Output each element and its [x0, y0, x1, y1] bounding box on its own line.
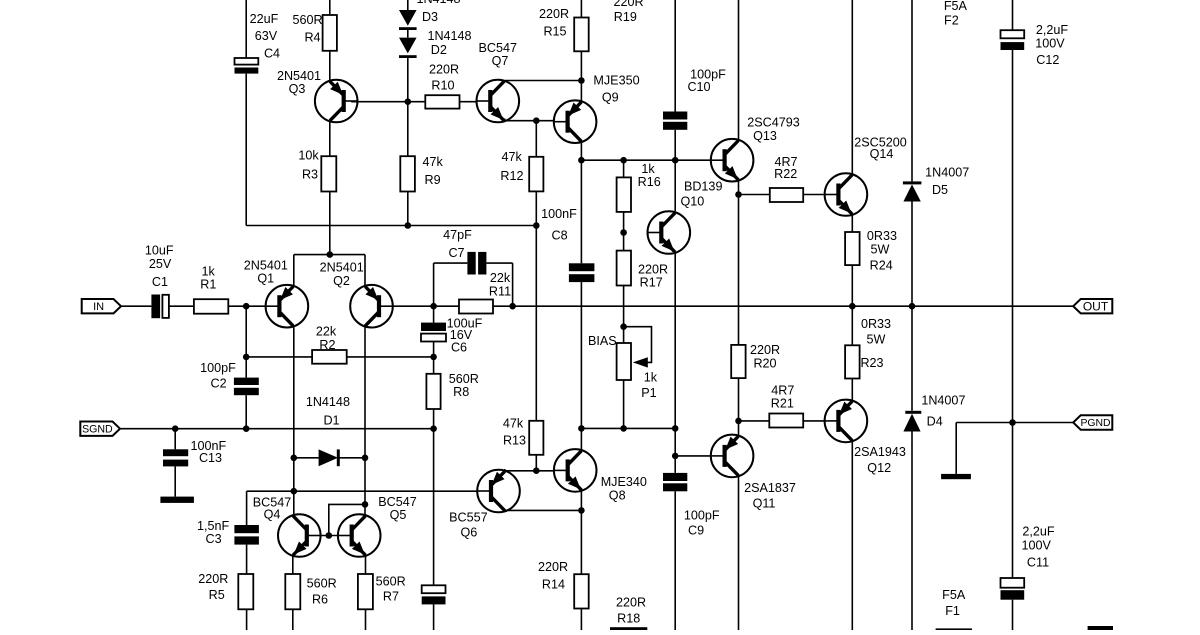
svg-text:R9: R9: [425, 173, 441, 187]
svg-text:Q4: Q4: [264, 508, 281, 522]
svg-text:R7: R7: [383, 590, 399, 604]
svg-text:R12: R12: [500, 169, 523, 183]
svg-text:560R: 560R: [292, 13, 322, 27]
svg-text:BIAS: BIAS: [588, 334, 617, 348]
svg-text:1k: 1k: [641, 162, 655, 176]
svg-text:47k: 47k: [502, 150, 523, 164]
svg-text:1k: 1k: [644, 371, 658, 385]
svg-text:F2: F2: [944, 14, 959, 28]
svg-text:BD139: BD139: [684, 180, 723, 194]
svg-text:22k: 22k: [316, 325, 337, 339]
svg-text:R22: R22: [774, 167, 797, 181]
svg-text:47pF: 47pF: [443, 228, 472, 242]
svg-text:P1: P1: [641, 386, 656, 400]
svg-text:R4: R4: [304, 31, 320, 45]
svg-text:R16: R16: [638, 175, 661, 189]
svg-text:R19: R19: [614, 10, 637, 24]
svg-text:R3: R3: [302, 168, 318, 182]
svg-text:C11: C11: [1027, 555, 1049, 569]
svg-text:560R: 560R: [376, 575, 406, 589]
svg-text:R15: R15: [543, 25, 566, 39]
svg-text:F5A: F5A: [944, 0, 968, 13]
svg-text:Q3: Q3: [289, 82, 306, 96]
svg-text:MJE340: MJE340: [601, 475, 647, 489]
svg-text:47k: 47k: [423, 155, 444, 169]
svg-text:Q9: Q9: [602, 91, 619, 105]
svg-text:220R: 220R: [613, 0, 643, 9]
svg-text:1N4148: 1N4148: [416, 0, 460, 6]
svg-text:560R: 560R: [449, 372, 479, 386]
svg-text:C4: C4: [264, 47, 280, 61]
svg-text:1,5nF: 1,5nF: [197, 519, 230, 533]
svg-text:BC547: BC547: [378, 495, 417, 509]
svg-text:R1: R1: [200, 278, 216, 292]
svg-text:5W: 5W: [867, 333, 886, 347]
svg-text:Q1: Q1: [257, 271, 274, 285]
svg-text:C10: C10: [687, 80, 710, 94]
svg-text:0R33: 0R33: [867, 229, 897, 243]
svg-text:MJE350: MJE350: [593, 74, 639, 88]
svg-text:25V: 25V: [149, 257, 172, 271]
svg-text:220R: 220R: [198, 572, 228, 586]
svg-text:R23: R23: [860, 356, 883, 370]
svg-text:R14: R14: [542, 578, 565, 592]
svg-text:Q6: Q6: [460, 526, 477, 540]
svg-text:R10: R10: [431, 78, 454, 92]
svg-text:2,2uF: 2,2uF: [1022, 525, 1055, 539]
svg-text:R8: R8: [453, 385, 469, 399]
svg-text:100nF: 100nF: [541, 207, 577, 221]
svg-text:Q2: Q2: [333, 274, 350, 288]
svg-text:100V: 100V: [1035, 37, 1065, 51]
svg-text:1N4007: 1N4007: [925, 166, 969, 180]
svg-text:D4: D4: [927, 415, 943, 429]
svg-text:220R: 220R: [616, 596, 646, 610]
svg-text:22uF: 22uF: [250, 12, 279, 26]
svg-text:0R33: 0R33: [861, 317, 891, 331]
svg-text:R2: R2: [319, 338, 335, 352]
svg-text:C3: C3: [206, 532, 222, 546]
svg-text:R6: R6: [312, 592, 328, 606]
svg-text:2N5401: 2N5401: [277, 69, 321, 83]
svg-text:D5: D5: [932, 183, 948, 197]
svg-text:100V: 100V: [1021, 539, 1051, 553]
svg-text:R21: R21: [771, 397, 794, 411]
svg-text:220R: 220R: [750, 343, 780, 357]
svg-text:R11: R11: [489, 285, 511, 299]
svg-text:100pF: 100pF: [200, 361, 236, 375]
svg-text:F1: F1: [945, 604, 960, 618]
svg-text:2SA1943: 2SA1943: [854, 445, 906, 459]
svg-text:Q7: Q7: [492, 54, 509, 68]
svg-text:1N4007: 1N4007: [921, 394, 965, 408]
svg-text:2N5401: 2N5401: [320, 260, 364, 274]
svg-text:2SA1837: 2SA1837: [744, 481, 796, 495]
svg-text:C2: C2: [211, 377, 227, 391]
svg-text:BC557: BC557: [449, 511, 488, 525]
svg-text:22k: 22k: [490, 271, 511, 285]
svg-text:10k: 10k: [298, 149, 319, 163]
svg-text:R24: R24: [870, 259, 893, 273]
svg-text:R5: R5: [209, 588, 225, 602]
svg-text:1N4148: 1N4148: [427, 29, 471, 43]
svg-text:220R: 220R: [539, 7, 569, 21]
svg-text:C13: C13: [199, 451, 222, 465]
svg-text:D2: D2: [431, 43, 447, 57]
svg-text:Q8: Q8: [609, 489, 626, 503]
svg-text:100pF: 100pF: [684, 509, 720, 523]
svg-text:Q14: Q14: [870, 147, 894, 161]
svg-text:F5A: F5A: [942, 588, 966, 602]
svg-text:2,2uF: 2,2uF: [1036, 23, 1069, 37]
svg-text:D1: D1: [323, 414, 339, 428]
svg-text:C7: C7: [448, 246, 464, 260]
svg-text:BC547: BC547: [479, 41, 518, 55]
svg-text:IN: IN: [93, 301, 104, 313]
svg-text:C1: C1: [152, 275, 168, 289]
svg-text:Q5: Q5: [390, 508, 407, 522]
svg-text:R20: R20: [753, 357, 776, 371]
svg-text:OUT: OUT: [1083, 300, 1109, 314]
svg-text:C8: C8: [552, 228, 568, 242]
svg-text:Q11: Q11: [753, 497, 776, 511]
svg-text:560R: 560R: [307, 577, 337, 591]
svg-text:10uF: 10uF: [145, 244, 174, 258]
svg-text:R13: R13: [503, 433, 526, 447]
svg-text:1N4148: 1N4148: [306, 395, 350, 409]
svg-text:Q12: Q12: [867, 461, 891, 475]
svg-text:R18: R18: [617, 612, 640, 626]
svg-text:220R: 220R: [538, 560, 568, 574]
svg-text:2N5401: 2N5401: [244, 258, 288, 272]
svg-text:PGND: PGND: [1080, 418, 1110, 429]
svg-text:5W: 5W: [871, 243, 890, 257]
svg-text:2SC4793: 2SC4793: [747, 116, 800, 130]
svg-text:R17: R17: [640, 276, 663, 290]
svg-text:220R: 220R: [429, 62, 459, 76]
svg-text:Q10: Q10: [680, 194, 704, 208]
svg-text:D3: D3: [422, 10, 438, 24]
svg-text:47k: 47k: [503, 417, 524, 431]
svg-text:C6: C6: [451, 341, 467, 355]
svg-text:Q13: Q13: [753, 129, 777, 143]
svg-text:SGND: SGND: [82, 424, 113, 436]
svg-text:C9: C9: [688, 524, 704, 538]
svg-text:C12: C12: [1036, 53, 1059, 67]
svg-text:63V: 63V: [255, 29, 278, 43]
